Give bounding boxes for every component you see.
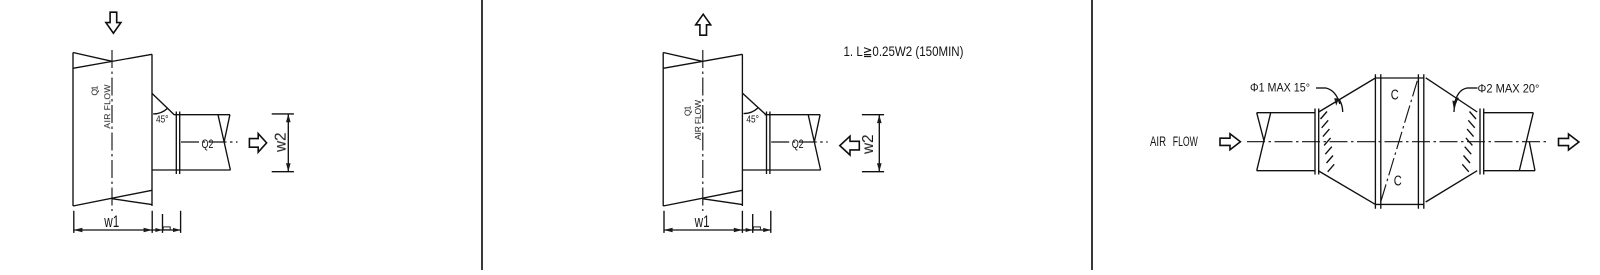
dimension w1 extension line right [741, 211, 743, 233]
45 degree arc [153, 108, 167, 114]
right duct bottom wall [1484, 170, 1535, 172]
left flexible hatch marks [1321, 112, 1335, 172]
dimension w1 extension line left [663, 211, 665, 233]
svg-text:Q2: Q2 [202, 137, 214, 151]
equipment diagonal centerline [1381, 81, 1418, 202]
main duct right wall [741, 54, 743, 206]
svg-text:Q2: Q2 [792, 137, 804, 151]
main duct right wall [151, 54, 153, 206]
dimension L extension line left [162, 214, 164, 233]
svg-text:w1: w1 [104, 213, 120, 231]
svg-text:w1: w1 [694, 213, 710, 231]
branch centerline [771, 141, 828, 143]
svg-text:AIR FLOW: AIR FLOW [693, 100, 703, 140]
main centerline [1247, 141, 1548, 143]
right cone top line [1426, 78, 1478, 112]
phi2 leader line [1452, 88, 1477, 109]
svg-text:w2: w2 [860, 134, 877, 155]
left cone bottom line [1319, 171, 1376, 204]
branch duct top wall [175, 114, 231, 116]
left duct top wall [1257, 112, 1315, 114]
equipment box inner line right [1417, 74, 1419, 208]
flow arrow up (hollow) [696, 14, 711, 35]
equipment box outer line right [1423, 74, 1425, 208]
branch duct top wall [765, 114, 821, 116]
top break line long [663, 54, 742, 68]
branch joint double line 2 [179, 112, 181, 175]
right joint double line 1 [1479, 109, 1481, 175]
label C bottom [1394, 174, 1402, 190]
label 45deg [746, 113, 759, 125]
label Q1 (rotated) [683, 105, 693, 116]
svg-text:Φ1 MAX 15°: Φ1 MAX 15° [1250, 83, 1310, 95]
dimension w1 extension line right [151, 211, 153, 233]
phi1 angle arc [1339, 100, 1342, 112]
bottom break line short [702, 199, 742, 205]
equipment box outer line left [1374, 74, 1376, 208]
right joint double line 2 [1483, 109, 1485, 175]
right cone bottom line [1426, 171, 1478, 202]
branch break line short [224, 115, 230, 142]
svg-text:1. L≧0.25W2 (150MIN): 1. L≧0.25W2 (150MIN) [844, 43, 964, 59]
branch joint double line 1 [175, 112, 177, 175]
label Q2 [792, 137, 804, 151]
right duct break line short [1529, 142, 1535, 171]
45 degree takeoff line [742, 93, 766, 115]
left joint double line 2 [1318, 109, 1320, 175]
svg-text:w2: w2 [273, 132, 290, 153]
branch break line long [218, 115, 230, 170]
equipment box top wall [1375, 77, 1423, 79]
duct centerline [702, 50, 704, 211]
dimension w2 bottom extension line [272, 171, 294, 173]
svg-text:AIR FLOW: AIR FLOW [102, 85, 112, 129]
equipment box bottom wall [1375, 203, 1423, 205]
branch centerline [181, 141, 238, 143]
equipment box inner line left [1380, 74, 1382, 208]
dimension w2 line with arrowheads [877, 115, 882, 172]
left duct bottom wall [1257, 170, 1315, 172]
branch break line long [808, 115, 820, 170]
top break line short [73, 53, 112, 62]
svg-text:AIR: AIR [1150, 134, 1166, 149]
bottom break line long [73, 190, 152, 206]
svg-text:45°: 45° [156, 113, 169, 125]
svg-text:Q1: Q1 [683, 105, 693, 116]
label AIR FLOW [1150, 134, 1198, 149]
svg-text:Φ2 MAX 20°: Φ2 MAX 20° [1478, 84, 1540, 96]
bottom break line short [112, 199, 152, 205]
flow arrow right (hollow) [249, 134, 266, 153]
dimension L extension line left [752, 214, 754, 233]
branch break line short [814, 115, 820, 142]
label w1 [694, 213, 710, 231]
label AIR FLOW (rotated) [102, 85, 112, 129]
dimension w2 top extension line [862, 114, 884, 116]
left duct break line long [1257, 113, 1271, 171]
dimension w2 bottom extension line [862, 171, 884, 173]
label phi1 max 15 [1250, 83, 1310, 95]
label C top [1391, 88, 1399, 104]
svg-text:Q1: Q1 [90, 85, 100, 95]
branch duct bottom wall [152, 169, 231, 171]
right flexible hatch marks [1462, 112, 1476, 172]
branch duct bottom wall [742, 169, 820, 171]
svg-text:45°: 45° [746, 113, 759, 125]
label Q2 [202, 137, 214, 151]
main duct left wall [662, 53, 664, 207]
dimension line w1/L with arrowheads [74, 227, 181, 232]
label w2 (rotated) [860, 134, 877, 155]
top break line long [73, 54, 152, 68]
duct centerline [111, 50, 113, 211]
flow arrow right far (hollow) [1559, 134, 1579, 150]
top break line short [663, 53, 702, 62]
left joint double line 1 [1314, 109, 1316, 175]
dimension L extension line right [180, 211, 182, 233]
flow arrow down (hollow) [106, 12, 121, 33]
label w1 [104, 213, 120, 231]
panel divider line right [1091, 0, 1093, 270]
dimension w2 line with arrowheads [286, 114, 291, 172]
left cone top line [1319, 78, 1376, 112]
label AIR FLOW (rotated) [693, 100, 703, 140]
45 degree arc [744, 108, 758, 114]
phi2 angle arc [1454, 98, 1458, 112]
label phi2 max 20 [1478, 84, 1540, 96]
right duct top wall [1484, 112, 1534, 114]
flow arrow right (hollow) [1220, 134, 1240, 150]
bottom break line long [663, 190, 742, 206]
left duct break line short [1257, 113, 1265, 142]
svg-text:C: C [1391, 88, 1399, 104]
label 45deg [156, 113, 169, 125]
label Q1 (rotated) [90, 85, 100, 95]
branch joint double line 1 [766, 112, 768, 175]
dimension w1 extension line left [73, 211, 75, 233]
right duct break line long [1519, 113, 1533, 171]
svg-text:FLOW: FLOW [1173, 134, 1198, 149]
label w2 (rotated) [273, 132, 290, 153]
dimension L extension line right [770, 211, 772, 233]
dimension w2 top extension line [272, 113, 294, 115]
flow arrow left (hollow) [840, 136, 860, 155]
main duct left wall [72, 53, 74, 207]
45 degree takeoff line [152, 93, 175, 115]
branch joint double line 2 [769, 112, 771, 175]
phi1 leader line [1316, 88, 1340, 106]
panel divider line left [481, 0, 483, 270]
note text [844, 43, 964, 59]
dimension line w1/L with arrowheads [664, 227, 771, 232]
svg-text:C: C [1394, 174, 1402, 190]
